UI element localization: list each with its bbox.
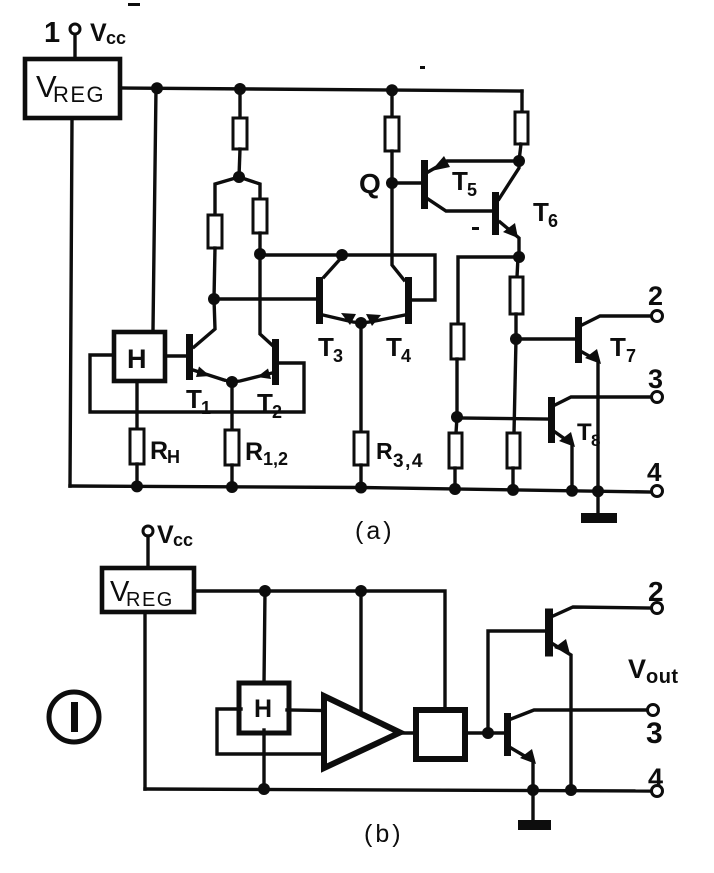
transistor T3 (316, 277, 323, 324)
circled I symbol (49, 692, 99, 742)
wire node down to T1 collector (194, 299, 215, 347)
svg-text:T: T (186, 384, 202, 414)
node T1 collector / T3 base (208, 293, 220, 305)
label pin 4 (b) (648, 763, 663, 793)
svg-text:2: 2 (648, 576, 664, 607)
wire T6 emitter node down right chain (517, 257, 518, 277)
svg-text:1: 1 (201, 398, 211, 418)
svg-text:7: 7 (626, 346, 636, 366)
svg-text:Q: Q (359, 168, 381, 199)
wire amp output to schmitt block (b) (400, 731, 416, 734)
pin 4 terminal (b) (652, 786, 663, 797)
label Vcc (a) (90, 19, 126, 48)
wire rail to load resistor (238, 89, 241, 118)
svg-text:4: 4 (401, 346, 411, 366)
transistor upper (b) (545, 609, 553, 657)
node output split (b) (482, 727, 494, 739)
wire RH to ground rail (135, 464, 138, 487)
wire H feedback loop (b) (217, 709, 324, 754)
svg-text:V: V (628, 654, 646, 684)
node upper emitter on rail (b) (565, 784, 577, 796)
svg-text:REG: REG (53, 82, 105, 107)
node T8 emitter on rail (566, 485, 578, 497)
svg-text:4: 4 (647, 457, 662, 487)
wire node down to lower resistor (514, 339, 516, 433)
scan speck top (128, 3, 140, 6)
node RH on rail (131, 480, 143, 492)
pin 3 terminal (a) (652, 392, 663, 403)
svg-text:5: 5 (467, 180, 477, 200)
svg-text:3: 3 (333, 346, 343, 366)
wire emitters to R12 (230, 382, 233, 430)
label Q (359, 168, 381, 199)
node lower emitter on rail (b) (527, 784, 539, 796)
node T2 collector (254, 248, 266, 260)
label (b) (364, 820, 404, 848)
svg-text:(b): (b) (364, 820, 404, 848)
wire rail corner to top-right resistor (520, 91, 523, 112)
wire T3 collector (324, 257, 342, 277)
svg-text:3: 3 (648, 364, 663, 394)
wire rail to Q resistor (390, 90, 393, 117)
node amp supply (b) (355, 585, 367, 597)
transistor T1 (186, 334, 193, 380)
wire supply rail (b) (194, 591, 445, 709)
ground symbol (a) (596, 491, 599, 514)
pin terminal Vcc (b) (143, 526, 153, 536)
label pin 3 (b) (646, 717, 663, 750)
wire T8 base (457, 418, 548, 419)
svg-text:H: H (127, 344, 147, 374)
resistor (Q branch load) (385, 117, 399, 151)
svg-text:6: 6 (548, 211, 558, 231)
svg-text:T: T (318, 332, 334, 362)
transistor T7 (575, 317, 582, 363)
hall element H (b) (239, 683, 289, 733)
resistor (T7 base chain lower) (507, 433, 520, 468)
label Vout (628, 654, 679, 688)
resistor RH (130, 429, 144, 464)
transistor T5 (pnp) (421, 160, 428, 209)
node T8 base (451, 411, 463, 423)
node H bottom on rail (b) (258, 783, 270, 795)
ground rail (a) (70, 486, 651, 492)
node right chain on rail (507, 484, 519, 496)
wire R34 to ground rail (359, 465, 362, 489)
label Vcc (b) (157, 521, 193, 550)
label pin 2 (b) (648, 576, 664, 607)
resistor (T1 collector load) (208, 215, 222, 248)
transistor T8 (548, 397, 555, 443)
label (a) (355, 517, 395, 545)
wire R12 to ground rail (230, 465, 233, 488)
pin 2 terminal (a) (652, 311, 663, 322)
wire split to left load (215, 177, 239, 215)
svg-text:V: V (157, 521, 174, 549)
wire H bottom to RH (135, 381, 138, 429)
wire to T7 base node (514, 314, 517, 339)
svg-text:T: T (257, 388, 273, 418)
op-amp triangle (b) (324, 696, 400, 768)
wire block output (b) (465, 731, 504, 734)
svg-text:R: R (245, 438, 263, 466)
node T7 emitter on rail (592, 485, 604, 497)
svg-text:(a): (a) (355, 517, 395, 545)
resistor (T8 base chain upper) (451, 324, 464, 359)
transistor T4 (405, 277, 412, 324)
label R3,4 (376, 438, 424, 472)
resistor (T7 base chain upper) (510, 277, 523, 314)
svg-text:1: 1 (44, 17, 60, 49)
wire Q down to T4 collector (392, 183, 404, 280)
svg-text:3: 3 (646, 717, 663, 750)
wire resistor to node Q (390, 151, 393, 183)
wire T2 collector node to T4 base loop (260, 255, 435, 300)
node common emitters T3 T4 (355, 317, 367, 329)
svg-text:REG: REG (126, 589, 174, 611)
svg-text:cc: cc (106, 28, 126, 48)
svg-text:H: H (254, 695, 272, 723)
label pin 2 (a) (648, 281, 663, 311)
svg-text:T: T (610, 332, 626, 362)
wire top supply rail (120, 88, 522, 91)
label R1,2 (245, 438, 288, 469)
pin 4 terminal (a) (652, 486, 663, 497)
node load split (233, 171, 245, 183)
svg-text:out: out (646, 666, 679, 688)
label pin 3 (a) (648, 364, 663, 394)
node on rail (H supply) (151, 82, 163, 94)
schmitt trigger block (b) (416, 710, 465, 759)
svg-text:V: V (90, 19, 107, 47)
wire right load to node (258, 233, 261, 254)
node on rail (Q branch) (386, 84, 398, 96)
node T6 emitter (513, 251, 525, 263)
wire H output to amplifier (b) (287, 708, 324, 712)
svg-text:1,2: 1,2 (263, 449, 288, 469)
resistor (diff pair load, upper) (233, 118, 247, 149)
wire to ground rail (453, 468, 456, 490)
node on rail (diff pair load) (234, 83, 246, 95)
wire to ground rail (511, 468, 514, 491)
svg-text:R: R (376, 438, 393, 464)
pin 2 terminal (b) (652, 603, 663, 614)
svg-text:R: R (150, 437, 168, 465)
resistor (T8 base chain lower) (449, 433, 462, 468)
wire T3 base (214, 297, 316, 300)
resistor R3,4 (354, 432, 368, 465)
wire VREG bottom to ground rail (70, 120, 72, 486)
ground symbol (b) (531, 790, 534, 820)
wire Q to T5 base (392, 181, 421, 184)
wire emitters to R34 (359, 323, 362, 432)
wire T6 emitter node left and down left chain (458, 257, 519, 324)
svg-text:cc: cc (173, 530, 193, 550)
wire H feedback loop to T2 base (90, 355, 304, 412)
hall element H (a) (114, 332, 165, 381)
transistor T2 (272, 339, 279, 385)
svg-text:2: 2 (272, 402, 282, 422)
wire H bottom to rail (b) (262, 730, 265, 789)
wire amp supply down (b) (359, 591, 362, 713)
scan speck mid (420, 66, 425, 69)
wire node down to T2 collector (260, 254, 272, 345)
transistor T6 (492, 192, 499, 235)
wire T7 base (516, 337, 575, 340)
svg-text:T: T (533, 197, 549, 227)
wire rail to H (b) (264, 591, 265, 684)
wire resistor to node (519, 144, 521, 161)
node common emitters T1 T2 (226, 376, 238, 388)
wire left load to T3 base node (214, 248, 215, 299)
wire to T8 base node (455, 359, 458, 417)
wire VREG bottom to ground rail (b) (143, 612, 146, 789)
svg-text:2: 2 (648, 281, 663, 311)
node left chain on rail (449, 483, 461, 495)
scan speck below T5 (472, 227, 479, 230)
wire node to lower resistor (456, 417, 457, 433)
label RH (150, 437, 180, 467)
node Q (386, 177, 398, 189)
svg-text:3,4: 3,4 (393, 451, 424, 472)
svg-text:H: H (167, 447, 180, 467)
resistor (T2 collector load) (253, 199, 267, 233)
node H supply (b) (259, 585, 271, 597)
wire H right to T1 base (165, 354, 186, 357)
wire H supply (153, 88, 156, 330)
node R34 on rail (355, 482, 367, 494)
pin 1 terminal (Vcc) (70, 24, 80, 34)
node R12 on rail (226, 481, 238, 493)
svg-text:T: T (386, 332, 402, 362)
pin 1 label (44, 17, 60, 49)
resistor R1,2 (225, 430, 239, 465)
label pin 4 (a) (647, 457, 662, 487)
node T5 emitter / T6 collector (513, 155, 525, 167)
svg-text:T: T (577, 419, 592, 446)
wire pin1 to VREG (73, 35, 76, 57)
svg-text:8: 8 (591, 431, 600, 450)
wire node up to upper transistor base (b) (488, 631, 545, 733)
wire resistor to split node (239, 149, 240, 177)
wire split to right load (239, 177, 260, 199)
ground rail (b) (145, 789, 651, 791)
svg-text:4: 4 (648, 763, 663, 793)
node T3 collector on cross wire (336, 249, 348, 261)
regulator block VREG (b) (102, 568, 194, 612)
transistor lower (b) (504, 713, 511, 756)
node T7 base (510, 333, 522, 345)
wire Vcc to VREG (b) (146, 536, 149, 566)
regulator block VREG (a) (25, 59, 120, 118)
pin 3 terminal (b) (648, 705, 659, 716)
resistor (T5/T6 collector load) (515, 112, 528, 144)
svg-text:T: T (452, 166, 468, 196)
